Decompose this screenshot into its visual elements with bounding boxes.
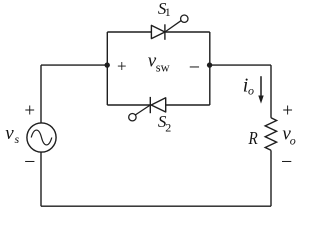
label S1 [158, 0, 171, 19]
svg-text:R: R [248, 128, 258, 149]
node A junction dot [105, 62, 110, 67]
current io arrow [258, 76, 263, 103]
wire bottom of switch loop left segment [107, 104, 151, 106]
svg-text:2: 2 [165, 121, 171, 135]
wire left vertical (source branch) [40, 65, 42, 206]
label vo [282, 124, 295, 148]
wire right vertical below resistor [270, 150, 272, 206]
wire right vertical above resistor [270, 65, 272, 118]
wire inner-right vertical [209, 32, 211, 105]
svg-text:−: − [24, 151, 35, 173]
node B junction dot [207, 62, 212, 67]
svg-text:+: + [24, 101, 35, 122]
svg-text:sw: sw [156, 61, 170, 75]
wire inner-left vertical [106, 32, 108, 105]
switch S1 (diode + contact arm) [151, 15, 188, 40]
svg-text:o: o [290, 134, 296, 148]
svg-text:s: s [15, 132, 20, 146]
wire top-left horizontal to node A [41, 64, 107, 66]
wire top rail cathode side of S1 [165, 31, 210, 33]
wire bottom of switch loop right segment [166, 104, 210, 106]
switch S2 (diode + contact arm) [129, 97, 166, 121]
svg-text:o: o [248, 84, 254, 98]
label S2 [158, 112, 171, 135]
svg-text:−: − [281, 151, 292, 173]
wire bottom rail [41, 205, 271, 207]
svg-text:1: 1 [165, 5, 171, 19]
svg-text:+: + [282, 100, 293, 121]
resistor R zigzag [265, 118, 276, 151]
label vsw [148, 51, 170, 75]
svg-text:−: − [189, 57, 200, 79]
svg-text:v: v [5, 123, 14, 144]
wire top rail anode side of S1 [107, 31, 151, 33]
voltage source vs (AC circle) [27, 123, 56, 152]
wire node B to top-right corner [210, 64, 272, 66]
label vs [5, 123, 19, 146]
label io [243, 75, 254, 98]
svg-text:+: + [117, 56, 127, 75]
